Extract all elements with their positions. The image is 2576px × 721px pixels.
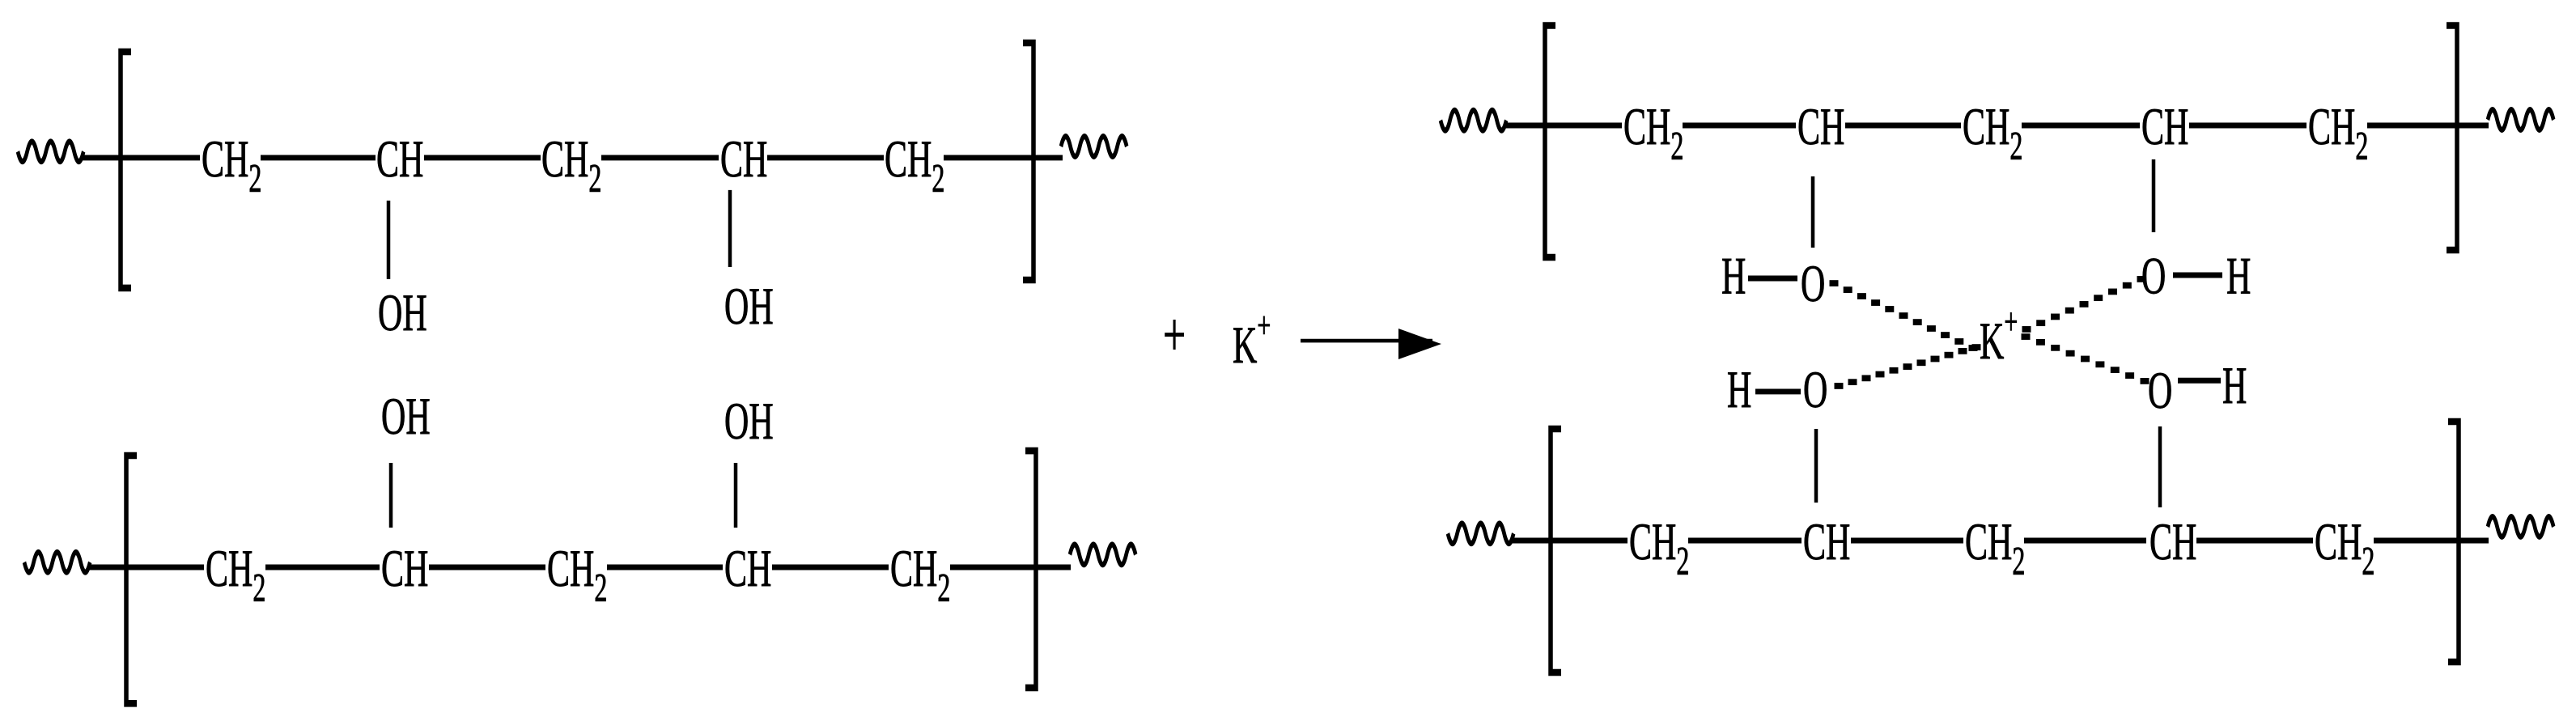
chain B backbone bond wavy-to-CH2 — [87, 566, 204, 570]
chain C terminal wavy bond (left) — [1441, 110, 1506, 130]
chain C right bracket — [2447, 25, 2457, 250]
chain D right bracket — [2448, 422, 2459, 662]
svg-text:K+: K+ — [1980, 302, 2018, 371]
chain C backbone bond CH-CH2 (2) — [2189, 124, 2307, 128]
chain A terminal wavy bond (right) — [1061, 137, 1127, 157]
svg-text:OH: OH — [378, 283, 427, 341]
svg-text:CH2: CH2 — [541, 129, 601, 201]
svg-text:CH2: CH2 — [547, 539, 607, 611]
chain B C-O bond (2) — [734, 463, 738, 528]
svg-text:H: H — [1727, 360, 1751, 418]
coordination dashed bond O3-K — [1835, 344, 1981, 389]
chain D backbone bond CH2-CH (2) — [2024, 539, 2146, 543]
reaction arrow head — [1398, 329, 1441, 359]
coordination dashed bond K-O4 — [2022, 333, 2149, 384]
chain D terminal wavy bond (right) — [2488, 517, 2553, 537]
chain C backbone bond CH-CH2 — [1845, 124, 1961, 128]
chain A terminal wavy bond (left) — [18, 142, 83, 162]
chain C O-H bond (2) — [2173, 274, 2222, 278]
svg-text:OH: OH — [724, 392, 774, 450]
svg-text:CH2: CH2 — [206, 539, 265, 611]
svg-text:CH: CH — [1797, 97, 1844, 155]
chain A left bracket — [121, 52, 131, 288]
svg-text:CH2: CH2 — [2308, 97, 2368, 169]
svg-text:K+: K+ — [1233, 305, 1271, 374]
chain A right bracket — [1023, 43, 1033, 280]
coordination dashed bond K-O2 — [2022, 276, 2146, 333]
chain B backbone bond CH-CH2 (2) — [772, 566, 889, 570]
chain C H-O bond (1) — [1748, 277, 1797, 281]
chain B backbone bond CH2-CH — [265, 566, 380, 570]
chain B terminal wavy bond (left) — [24, 552, 90, 572]
coordination dashed bond O1-K — [1830, 280, 1978, 351]
reaction arrow shaft — [1301, 340, 1432, 342]
chain B C-O bond (1) — [389, 463, 393, 528]
chain C backbone bond CH2-CH — [1683, 124, 1796, 128]
chain A backbone bond wavy-to-CH2 — [81, 156, 200, 160]
chain A C-O bond (2) — [728, 190, 732, 267]
svg-text:H: H — [1721, 246, 1746, 304]
chain A backbone bond CH2-CH (2) — [601, 156, 719, 160]
svg-text:OH: OH — [724, 277, 774, 335]
chain D left bracket — [1551, 429, 1561, 672]
svg-text:CH: CH — [381, 539, 428, 597]
svg-text:CH: CH — [1803, 512, 1850, 570]
chain D backbone bond CH2-bracket — [2374, 539, 2489, 543]
svg-text:OH: OH — [381, 387, 431, 445]
chain A C-O bond (1) — [387, 201, 391, 279]
svg-text:O: O — [2148, 361, 2172, 419]
chain B right bracket — [1025, 451, 1036, 688]
svg-text:O: O — [2141, 246, 2166, 304]
chain C backbone bond wavy-to-CH2 — [1504, 124, 1622, 128]
chain D backbone bond wavy-to-CH2 — [1511, 539, 1628, 543]
chain B backbone bond CH2-CH (2) — [607, 566, 723, 570]
svg-text:CH2: CH2 — [890, 539, 950, 611]
chain A backbone bond CH-CH2 — [424, 156, 541, 160]
svg-text:CH2: CH2 — [1963, 97, 2022, 169]
svg-text:O: O — [1803, 360, 1827, 418]
chain C left bracket — [1545, 25, 1555, 257]
chain C C-O bond (1) — [1811, 176, 1815, 248]
chain B backbone bond CH2-bracket — [950, 566, 1071, 570]
chain D backbone bond CH2-CH — [1688, 539, 1802, 543]
chain A backbone bond CH2-bracket — [944, 156, 1063, 160]
chain C C-O bond (2) — [2152, 159, 2156, 232]
chain B terminal wavy bond (right) — [1070, 545, 1135, 565]
svg-text:CH2: CH2 — [1965, 512, 2025, 584]
chain D O-H bond (4) — [2178, 379, 2221, 383]
chain C backbone bond CH2-CH (2) — [2022, 124, 2140, 128]
svg-text:CH: CH — [720, 129, 767, 188]
svg-text:H: H — [2226, 246, 2251, 304]
svg-text:CH: CH — [2141, 97, 2188, 155]
chain D backbone bond CH-CH2 (2) — [2196, 539, 2313, 543]
chain D C-O bond (1) — [1814, 429, 1818, 503]
svg-text:O: O — [1801, 254, 1825, 312]
svg-text:CH2: CH2 — [2315, 512, 2374, 584]
chain B backbone bond CH-CH2 — [429, 566, 545, 570]
chain B left bracket — [126, 456, 137, 703]
chain A backbone bond CH2-CH — [261, 156, 376, 160]
chain D backbone bond CH-CH2 — [1851, 539, 1963, 543]
svg-text:CH: CH — [376, 129, 423, 188]
chain C backbone bond CH2-bracket — [2367, 124, 2489, 128]
svg-text:+: + — [1163, 301, 1186, 371]
svg-text:CH2: CH2 — [1629, 512, 1689, 584]
svg-text:CH2: CH2 — [1623, 97, 1683, 169]
chain A backbone bond CH-CH2 (2) — [767, 156, 884, 160]
svg-text:H: H — [2222, 356, 2247, 414]
chain D terminal wavy bond (left) — [1448, 524, 1513, 544]
svg-text:CH: CH — [2149, 512, 2196, 570]
svg-text:CH2: CH2 — [885, 129, 944, 201]
svg-text:CH2: CH2 — [202, 129, 261, 201]
chain C terminal wavy bond (right) — [2488, 110, 2553, 130]
chain D H-O bond (3) — [1755, 390, 1801, 394]
svg-text:CH: CH — [724, 539, 771, 597]
chain D C-O bond (2) — [2158, 426, 2162, 507]
